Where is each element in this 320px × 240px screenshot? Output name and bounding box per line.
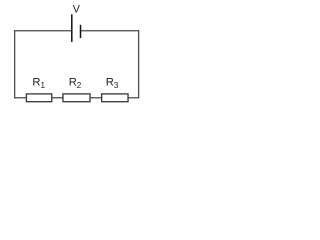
- svg-text:R1: R1: [32, 76, 45, 90]
- svg-text:R2: R2: [69, 76, 82, 90]
- svg-text:V: V: [73, 3, 81, 15]
- svg-text:R3: R3: [106, 76, 119, 90]
